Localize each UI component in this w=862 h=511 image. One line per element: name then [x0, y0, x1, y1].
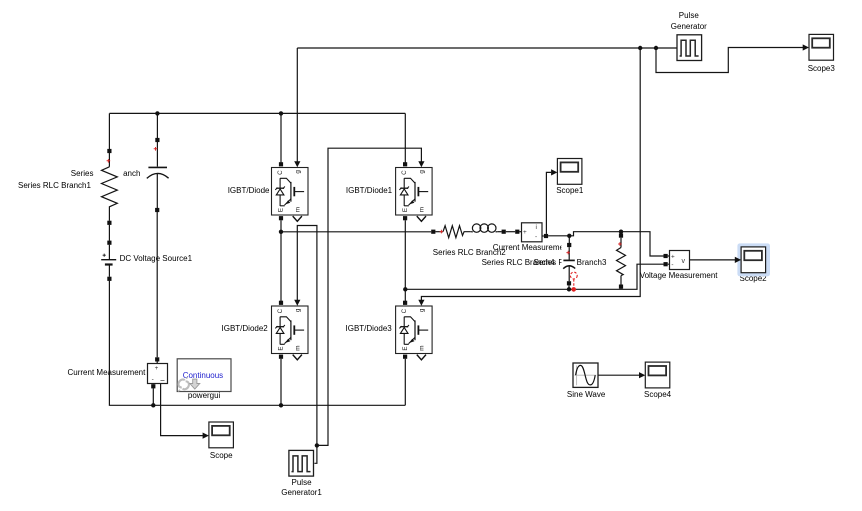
svg-text:+: + [671, 254, 675, 261]
svg-text:+: + [523, 229, 527, 236]
svg-text:i: i [160, 380, 167, 381]
svg-text:-: - [535, 234, 537, 241]
svg-text:Continuous: Continuous [183, 371, 223, 380]
svg-text:+: + [155, 365, 159, 372]
svg-text:v: v [682, 258, 686, 265]
svg-text:i: i [536, 224, 537, 231]
svg-text:-: - [152, 376, 154, 383]
svg-text:-: - [671, 262, 673, 269]
